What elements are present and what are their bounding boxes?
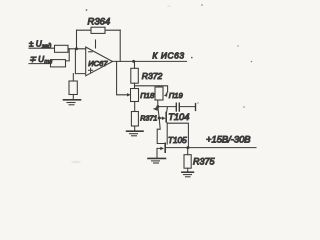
node dot R375 [186, 146, 189, 149]
terminal end bar [195, 104, 197, 111]
wire node to capacitor [158, 106, 176, 108]
svg-text:R375: R375 [193, 157, 216, 167]
svg-text:ИС67: ИС67 [88, 59, 108, 68]
node dot under P19 [156, 105, 159, 108]
resistor noninverting to ground [69, 74, 77, 100]
transistor T104 base bar [165, 113, 167, 122]
arrow P19 wiper [164, 92, 168, 97]
op-amp U ИС62 triangle [86, 47, 113, 76]
svg-text:К ИС63: К ИС63 [152, 51, 184, 61]
arrow P18 wiper [127, 93, 131, 96]
transistor T105 emitter arrow from ground [157, 147, 164, 159]
transistor T104 collector down [167, 122, 189, 148]
ground at T105 emitter [148, 158, 166, 163]
node dot T104 emitter [158, 117, 161, 120]
svg-text:П19: П19 [169, 91, 184, 100]
transistor T104 emitter arrow [159, 117, 165, 121]
op-amp minus sign [89, 51, 93, 53]
wire input 2 riser [66, 49, 70, 61]
wire feedback left vertical [76, 30, 78, 49]
resistor R364 [77, 27, 121, 33]
wire top link to P19 [135, 86, 168, 92]
wire input 2 [29, 63, 51, 65]
wire node down to T104 emitter [158, 107, 159, 118]
svg-text:R364: R364 [88, 17, 111, 28]
node dot at R372 [132, 60, 135, 63]
ground under op-amp resistor [64, 100, 81, 105]
svg-text:Т105: Т105 [168, 136, 187, 145]
svg-text:Т104: Т104 [168, 112, 189, 122]
resistor P18 (potentiometer) [131, 89, 139, 102]
ground under R375 [182, 172, 194, 177]
wire input 1 [29, 47, 55, 49]
wire down to P18 wiper [117, 61, 129, 94]
resistor R372 [131, 61, 139, 88]
arrow left at node [153, 107, 158, 111]
svg-text:R371: R371 [140, 114, 157, 123]
resistor input 2 [51, 60, 66, 67]
ground under R371 [127, 131, 143, 136]
wire op-amp output [113, 60, 187, 62]
resistor P19 (potentiometer) [155, 86, 163, 100]
svg-text:R372: R372 [142, 71, 163, 81]
wire output rail [166, 147, 256, 149]
svg-text:П18: П18 [140, 91, 155, 100]
wire input 1 to op-amp [68, 48, 86, 50]
resistor R371 [131, 102, 138, 132]
svg-text:+15В/-30В: +15В/-30В [206, 133, 251, 144]
transistor T104 collector up [167, 107, 168, 113]
wire feedback right vertical [119, 30, 121, 61]
capacitor plates [176, 103, 179, 111]
resistor input 1 [55, 45, 69, 52]
op-amp plus sign [89, 68, 93, 72]
wire P19 bottom stub [157, 100, 159, 107]
wire capacitor to terminal [179, 106, 195, 108]
transistor T105 collector up [166, 123, 168, 144]
op-amp top stub [95, 40, 97, 48]
transistor T105 base bar [164, 143, 166, 152]
wire T105 base staircase [157, 118, 164, 144]
speckles [86, 5, 253, 108]
resistor R375 [184, 148, 191, 172]
node junction dot [75, 47, 78, 50]
wire to noninverting input [75, 49, 84, 74]
